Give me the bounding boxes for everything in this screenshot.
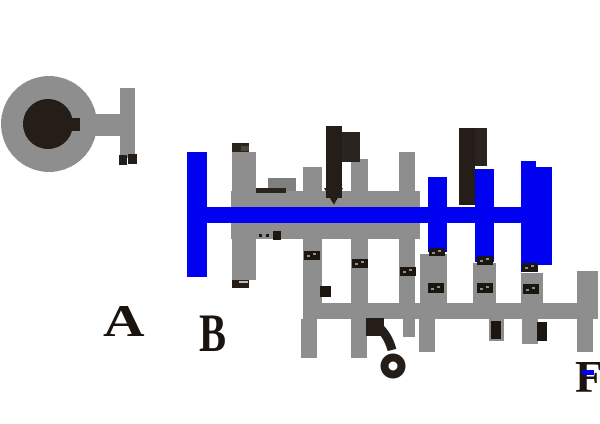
shift fork 1 tip (324, 188, 343, 205)
shaft stub S6 below shaft (522, 319, 538, 344)
shaft stub S5 below shaft (489, 319, 504, 341)
gear 1 on input (gray tall bar) (232, 152, 256, 280)
label w4 on L4 (428, 283, 444, 293)
label z2 on gear2 (304, 251, 320, 260)
lower gear L6 (521, 273, 543, 319)
shift fork 2 stalk (459, 128, 475, 205)
lower gear L7 (577, 271, 598, 319)
blue gear C right step (536, 167, 552, 265)
shift fork 1 lobe (342, 132, 360, 162)
blue gear C left step (521, 161, 536, 272)
shaft stub S4 below shaft (419, 319, 435, 352)
svg-text:A: A (103, 296, 145, 346)
clutch label (119, 155, 127, 165)
label w6 on L6 (523, 284, 539, 294)
engine keyway dark notch (67, 118, 81, 131)
upper shaft gray hub (231, 191, 420, 239)
gear pair 3 upper column (351, 159, 368, 319)
label n1 on L1 below shaft (320, 286, 331, 297)
blue main shaft (187, 207, 552, 223)
label z3 on gear3 (352, 259, 368, 268)
engine M rotor dark disc (23, 99, 73, 149)
shaft stub S3 below shaft (403, 319, 415, 337)
blue input gear bar (187, 152, 207, 277)
hub top dark strip (256, 188, 286, 193)
gear 1 top cap (232, 143, 249, 152)
engine M outer disc (1, 76, 97, 172)
lower gear L5 (473, 263, 496, 319)
label n2 on stub S5 (491, 321, 501, 339)
label z4 on gear4 (400, 267, 416, 276)
label w5 on L5 (477, 283, 493, 293)
lower gear L4 (420, 254, 447, 319)
gear 1 bottom label block (232, 280, 249, 288)
gear pair 4 upper column (399, 152, 415, 319)
shift fork 2 lobe (460, 128, 487, 166)
shaft stub S2 below shaft (351, 319, 367, 358)
label n3 on stub S6 (537, 322, 547, 341)
lower countershaft (303, 303, 598, 319)
label z1 on hub (259, 231, 281, 240)
shift fork 1 stalk (326, 126, 342, 198)
gear pair 2 upper column (303, 167, 322, 319)
shaft stub S7 below shaft (577, 319, 593, 352)
shaft stub S1 below shaft (301, 319, 317, 358)
hub sleeve block (268, 178, 296, 191)
script symbol with loop (372, 322, 402, 375)
blue gear B (475, 169, 494, 262)
blue gear A (428, 177, 447, 252)
svg-text:F: F (575, 351, 600, 402)
clutch disc K (120, 88, 135, 158)
script symbol head block (366, 318, 384, 336)
svg-text:B: B (199, 303, 226, 363)
F blue dash (582, 370, 594, 375)
label zC under gear C (522, 263, 538, 272)
label zA under gear A (429, 248, 445, 256)
engine output shaft (80, 114, 122, 136)
label zB under gear B (477, 256, 493, 265)
